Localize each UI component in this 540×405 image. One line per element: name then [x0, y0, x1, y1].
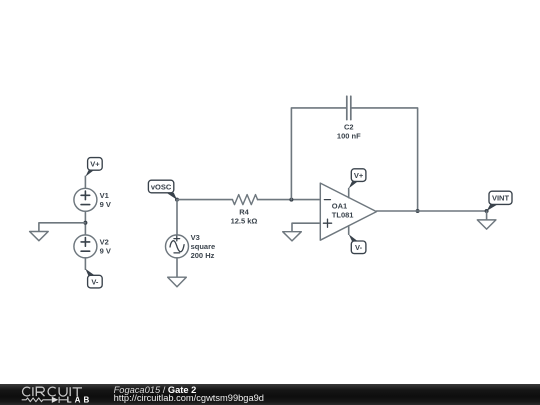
svg-text:V-: V- — [355, 243, 363, 252]
svg-text:V-: V- — [91, 277, 99, 286]
node feedback tap on inverting input — [289, 198, 293, 202]
wire op-amp non-inverting input to ground — [292, 223, 320, 232]
svg-text:C2: C2 — [344, 122, 354, 131]
node output end — [485, 209, 489, 213]
svg-text:100 nF: 100 nF — [337, 131, 361, 140]
ground (V3) — [168, 277, 187, 287]
svg-text:V2: V2 — [100, 238, 109, 247]
wire op-amp output to VINT — [377, 210, 487, 212]
wire V3 to ground — [176, 258, 178, 277]
CircuitLab logo — [0, 384, 110, 405]
wire V+ flag to V1 — [84, 176, 86, 188]
svg-text:TL081: TL081 — [332, 211, 354, 220]
voltage source V3 square 200 Hz — [166, 233, 216, 260]
wire V1 to V2 through junction — [84, 211, 86, 235]
svg-text:200 Hz: 200 Hz — [191, 251, 215, 260]
wire feedback right vertical — [351, 108, 418, 211]
svg-text:OA1: OA1 — [332, 202, 347, 211]
node junction between V1 and V2 — [83, 221, 87, 225]
wire feedback left vertical — [291, 108, 346, 200]
node output junction — [416, 209, 420, 213]
net flag V- (left supply) — [85, 269, 102, 288]
op-amp OA1 TL081 — [320, 183, 376, 240]
wire R4 to op-amp inverting input — [258, 199, 321, 201]
svg-text:square: square — [191, 242, 216, 251]
wire output to ground stem — [486, 211, 488, 220]
svg-text:V3: V3 — [191, 233, 200, 242]
ground (output) — [477, 220, 496, 229]
svg-text:LAB: LAB — [67, 396, 92, 405]
ground (left supply) — [30, 232, 49, 241]
svg-text:9 V: 9 V — [100, 247, 111, 256]
net flag V- (op-amp) — [349, 234, 366, 253]
net flag V+ (op-amp) — [349, 169, 366, 189]
capacitor C2 100 nF — [337, 96, 361, 140]
svg-text:vOSC: vOSC — [151, 182, 172, 191]
wire op-amp V+ pin stub — [348, 188, 350, 197]
voltage source V1 9 V — [74, 188, 111, 211]
net flag vOSC — [148, 180, 177, 200]
wire V2 to V- flag — [84, 258, 86, 269]
node vOSC junction — [175, 198, 179, 202]
footer bar — [0, 384, 540, 405]
net flag VINT — [487, 191, 512, 211]
net flag V+ (left supply) — [85, 158, 102, 177]
voltage source V2 9 V — [74, 235, 111, 258]
svg-text:V1: V1 — [100, 191, 109, 200]
wire junction to ground — [39, 223, 86, 232]
footer title text — [114, 386, 264, 402]
svg-text:V+: V+ — [354, 171, 364, 180]
wire op-amp V- pin stub — [348, 226, 350, 234]
svg-text:9 V: 9 V — [100, 200, 111, 209]
ground (op-amp + input) — [283, 232, 302, 241]
svg-text:R4: R4 — [239, 207, 249, 216]
wire vOSC to R4 — [177, 199, 232, 201]
svg-text:12.5 kΩ: 12.5 kΩ — [231, 216, 258, 225]
resistor R4 12.5 k — [231, 195, 258, 226]
wire vOSC down to V3 — [176, 200, 178, 235]
svg-text:VINT: VINT — [492, 194, 510, 203]
svg-text:V+: V+ — [90, 160, 100, 169]
